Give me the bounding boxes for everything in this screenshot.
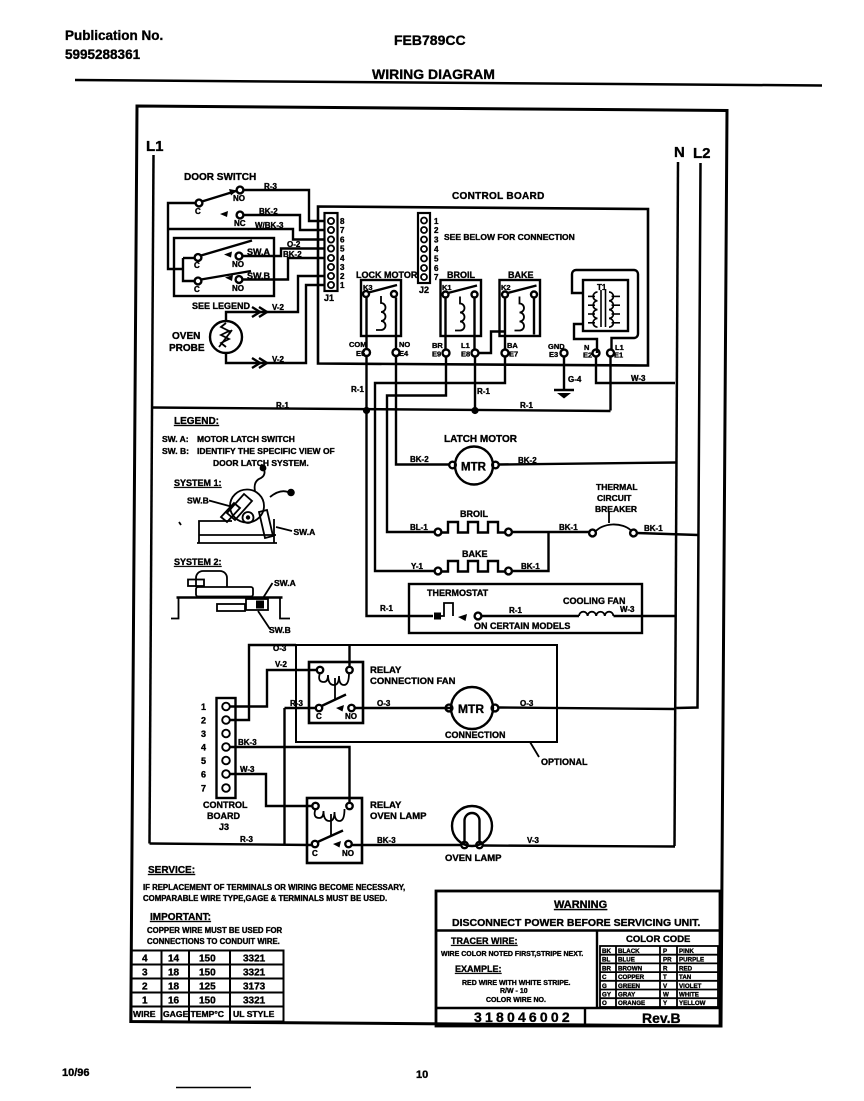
svg-text:318046002: 318046002: [474, 1009, 573, 1025]
svg-text:RED: RED: [679, 965, 693, 972]
wire W-3 J3 pin6 to lamp relay coil: [230, 774, 312, 806]
svg-text:LEGEND:: LEGEND:: [174, 416, 219, 427]
wire bake joins broil line: [512, 532, 549, 571]
svg-text:CONNECTION FAN: CONNECTION FAN: [370, 676, 456, 687]
svg-text:O-3: O-3: [273, 644, 287, 653]
svg-text:SYSTEM 2:: SYSTEM 2:: [174, 557, 222, 567]
wire V-2 oven probe top to J1 pin2: [226, 276, 324, 321]
svg-text:PROBE: PROBE: [169, 343, 205, 354]
svg-text:V-3: V-3: [527, 836, 540, 845]
svg-text:WARNING: WARNING: [554, 899, 607, 911]
wire R-3 drop: [283, 708, 285, 845]
svg-text:BK-1: BK-1: [559, 523, 578, 532]
wire O-2 SW.A NO to J1 pin5: [243, 249, 325, 257]
wire W-3 fan to N rail: [614, 615, 677, 617]
svg-text:DOOR SWITCH: DOOR SWITCH: [184, 172, 256, 183]
svg-text:C: C: [602, 974, 607, 981]
diagram frame: [131, 106, 727, 1026]
svg-text:E5: E5: [356, 349, 365, 358]
svg-text:R: R: [663, 965, 668, 972]
svg-text:BK-2: BK-2: [283, 250, 302, 259]
svg-text:COM: COM: [349, 340, 367, 349]
svg-text:1: 1: [434, 217, 439, 226]
svg-text:5995288361: 5995288361: [65, 47, 141, 62]
header rule: [75, 80, 822, 86]
svg-text:R-1: R-1: [380, 604, 393, 613]
svg-text:O-2: O-2: [287, 240, 301, 249]
svg-text:W: W: [663, 992, 669, 999]
svg-text:NO: NO: [232, 260, 244, 269]
svg-text:E3: E3: [549, 350, 558, 359]
thermostat cooling fan box: [409, 584, 642, 633]
svg-text:BK-1: BK-1: [644, 524, 663, 533]
svg-text:BLUE: BLUE: [618, 957, 635, 964]
svg-text:R-1: R-1: [509, 606, 522, 615]
svg-text:WHITE: WHITE: [679, 992, 699, 999]
wire door switch C common: [168, 203, 196, 269]
system 2 latch sketch: [171, 571, 290, 619]
svg-text:E2: E2: [583, 351, 592, 360]
switch SW.B contact C: [195, 278, 202, 285]
svg-text:LATCH MOTOR: LATCH MOTOR: [444, 434, 518, 445]
svg-text:18: 18: [168, 968, 180, 979]
svg-text:VIOLET: VIOLET: [679, 983, 702, 990]
svg-text:3321: 3321: [243, 996, 266, 1007]
svg-text:E4: E4: [399, 349, 409, 358]
svg-text:1: 1: [201, 702, 206, 712]
svg-text:7: 7: [201, 784, 206, 794]
svg-text:Publication No.: Publication No.: [65, 28, 163, 43]
svg-text:Y-1: Y-1: [411, 562, 424, 571]
svg-text:PINK: PINK: [679, 948, 694, 955]
connector chevrons bottom: [252, 358, 267, 368]
svg-text:THERMOSTAT: THERMOSTAT: [427, 588, 489, 598]
svg-text:C: C: [194, 261, 200, 270]
svg-text:OVEN: OVEN: [172, 331, 200, 342]
svg-text:6: 6: [340, 236, 345, 245]
connector J1: [325, 213, 338, 291]
svg-text:18: 18: [168, 982, 180, 993]
wire V-3 lamp to N rail: [483, 846, 676, 847]
svg-text:TRACER WIRE:: TRACER WIRE:: [451, 936, 518, 946]
wire BK-2 latch motor to N rail: [499, 463, 676, 465]
svg-text:RED WIRE WITH WHITE STRIPE.: RED WIRE WITH WHITE STRIPE.: [462, 980, 571, 987]
thermal circuit breaker: [595, 482, 638, 514]
svg-text:2: 2: [142, 982, 148, 993]
svg-text:W-3: W-3: [631, 374, 646, 383]
svg-text:MTR: MTR: [461, 462, 487, 474]
header publication no: [65, 28, 495, 82]
terminal E5: [363, 349, 370, 356]
wire E9 to broil column: [387, 357, 446, 533]
svg-text:THERMAL: THERMAL: [596, 482, 638, 492]
svg-text:SW.A: SW.A: [274, 578, 296, 588]
svg-text:R-1: R-1: [351, 385, 364, 394]
svg-text:YELLOW: YELLOW: [679, 1000, 706, 1007]
wire E8 to K2 common: [479, 332, 506, 354]
switch SW.A arm: [201, 241, 252, 256]
svg-text:BAKE: BAKE: [508, 270, 534, 280]
svg-text:125: 125: [199, 982, 216, 993]
svg-text:CONTROL: CONTROL: [203, 800, 248, 810]
wire BK-3 lamp relay NO to lamp: [352, 844, 461, 846]
svg-text:SW.A: SW.A: [294, 527, 316, 537]
wire K2 right contact: [533, 298, 535, 335]
svg-text:RELAY: RELAY: [370, 800, 402, 811]
svg-text:E1: E1: [614, 351, 623, 360]
optional leader: [530, 742, 539, 757]
relay oven lamp box: [307, 798, 362, 863]
svg-text:7: 7: [434, 273, 439, 282]
control board outline: [318, 207, 648, 366]
wire W-3 E2 to N rail: [596, 357, 675, 384]
wire R-3 to J1 pin8: [244, 190, 325, 221]
wire BK-2 SW.B NO to J1 pin4: [243, 258, 325, 280]
svg-text:NO: NO: [233, 194, 245, 203]
svg-text:BK-1: BK-1: [521, 562, 540, 571]
svg-text:FEB789CC: FEB789CC: [394, 32, 466, 48]
connection fan motor MTR: [451, 687, 493, 729]
svg-text:R-3: R-3: [240, 835, 253, 844]
svg-text:UL STYLE: UL STYLE: [233, 1009, 275, 1019]
wire W/BK-3 to J1 pin6: [168, 229, 324, 240]
svg-text:R-1: R-1: [520, 401, 533, 410]
wire BK-3 J3 pin4 to lamp relay coil: [230, 747, 350, 803]
cooling fan coil: [482, 615, 580, 617]
svg-text:SERVICE:: SERVICE:: [148, 865, 195, 876]
svg-text:7: 7: [340, 226, 345, 235]
wire R-3 main to lamp relay C: [150, 844, 313, 846]
fan relay coil: [317, 667, 323, 673]
svg-text:3: 3: [142, 968, 148, 979]
svg-text:EXAMPLE:: EXAMPLE:: [455, 964, 502, 974]
svg-text:L2: L2: [693, 145, 711, 162]
wire V-2 oven probe bottom to J1 pin1: [226, 285, 324, 363]
svg-text:150: 150: [199, 968, 216, 979]
svg-text:8: 8: [340, 217, 345, 226]
svg-text:6: 6: [434, 264, 439, 273]
svg-text:NO: NO: [232, 284, 244, 293]
svg-text:MOTOR LATCH SWITCH: MOTOR LATCH SWITCH: [197, 434, 295, 444]
svg-text:1: 1: [142, 996, 148, 1007]
wire N rail: [675, 162, 679, 846]
svg-text:R-1: R-1: [477, 387, 490, 396]
svg-text:O-3: O-3: [520, 699, 534, 708]
svg-text:2: 2: [434, 226, 439, 235]
wire R-1 main horizontal: [152, 408, 611, 412]
svg-text:NO: NO: [342, 849, 354, 858]
terminal E1 L1: [607, 350, 614, 357]
svg-text:BL: BL: [602, 957, 610, 964]
system 1 latch sketch: [179, 465, 295, 543]
wire E4 column down to latch motor: [396, 356, 450, 465]
relay connection fan box: [309, 662, 363, 723]
svg-text:BR: BR: [602, 965, 611, 972]
svg-text:150: 150: [199, 996, 216, 1007]
svg-text:E9: E9: [432, 350, 441, 359]
svg-text:PR: PR: [663, 957, 672, 964]
transformer T1 inner box: [583, 280, 628, 331]
svg-text:BK: BK: [602, 948, 611, 955]
svg-text:NO: NO: [345, 712, 357, 721]
svg-text:14: 14: [168, 954, 180, 965]
svg-text:BK-2: BK-2: [410, 455, 429, 464]
svg-text:WIRING DIAGRAM: WIRING DIAGRAM: [372, 66, 495, 82]
transformer T1 outer: [572, 270, 638, 350]
svg-text:W/BK-3: W/BK-3: [255, 221, 284, 230]
svg-text:C: C: [316, 712, 322, 721]
svg-text:OVEN LAMP: OVEN LAMP: [370, 811, 427, 822]
svg-text:BOARD: BOARD: [207, 811, 240, 821]
wire O-3 coil to top: [348, 645, 350, 667]
door switch contact C: [196, 200, 203, 207]
switch SW.B contact NO: [236, 276, 243, 283]
svg-text:150: 150: [199, 954, 216, 965]
footer tick: [176, 1087, 251, 1089]
svg-text:C: C: [195, 207, 201, 216]
svg-text:4: 4: [201, 743, 206, 753]
lamp relay contacts: [312, 841, 318, 847]
svg-text:10/96: 10/96: [62, 1067, 90, 1079]
svg-text:OVEN LAMP: OVEN LAMP: [445, 853, 502, 864]
wire O-3 J3 pin2 to optional box: [230, 645, 296, 720]
wire L2 rail: [677, 163, 701, 708]
latch switch box: [174, 238, 274, 296]
svg-text:PURPLE: PURPLE: [679, 957, 704, 964]
svg-text:TAN: TAN: [679, 974, 692, 981]
wire R-3 to fan relay C: [285, 707, 317, 709]
svg-text:NC: NC: [234, 219, 246, 228]
svg-text:5: 5: [201, 756, 206, 766]
svg-text:SYSTEM 1:: SYSTEM 1:: [174, 478, 222, 488]
svg-text:BL-1: BL-1: [410, 523, 428, 532]
svg-text:4: 4: [434, 245, 439, 254]
svg-text:CIRCUIT: CIRCUIT: [597, 493, 632, 503]
svg-text:ON CERTAIN MODELS: ON CERTAIN MODELS: [474, 621, 570, 631]
wire common bus inside box: [183, 258, 195, 281]
svg-text:COPPER: COPPER: [618, 974, 645, 981]
door switch contact NC: [220, 211, 228, 217]
svg-text:IF REPLACEMENT OF TERMINALS OR: IF REPLACEMENT OF TERMINALS OR WIRING BE…: [143, 883, 405, 892]
part number row: [436, 1007, 720, 1009]
svg-text:COPPER WIRE MUST BE USED FOR: COPPER WIRE MUST BE USED FOR: [147, 926, 283, 935]
connector chevrons top: [252, 307, 267, 317]
connector J2: [418, 213, 430, 283]
svg-text:R/W - 10: R/W - 10: [500, 988, 528, 995]
wire O-3 motor to N rail: [499, 708, 676, 710]
wire E5 column down to thermostat: [367, 356, 434, 616]
svg-text:R-3: R-3: [264, 182, 277, 191]
svg-text:GY: GY: [602, 992, 612, 999]
svg-text:MTR: MTR: [458, 702, 484, 716]
svg-text:J2: J2: [419, 285, 429, 295]
svg-text:V-2: V-2: [272, 355, 285, 364]
wire E1 down to R-1 line: [609, 357, 611, 411]
svg-text:BAKE: BAKE: [462, 549, 488, 559]
wire BK-2 to J1 pin7: [244, 215, 325, 230]
lamp relay coil: [312, 803, 318, 809]
svg-text:LOCK MOTOR: LOCK MOTOR: [356, 270, 418, 280]
svg-text:SW.B: SW.B: [187, 496, 209, 506]
tracer wire cell: [596, 931, 598, 1009]
wire O-3 fan relay NO to motor: [355, 707, 451, 709]
svg-text:3321: 3321: [243, 954, 266, 965]
wire breaker to L2 rail: [637, 533, 699, 535]
svg-text:OPTIONAL: OPTIONAL: [541, 757, 588, 767]
terminal E4: [393, 349, 400, 356]
svg-text:SW. A:: SW. A:: [162, 434, 189, 444]
svg-text:6: 6: [201, 770, 206, 780]
svg-text:W-3: W-3: [620, 605, 635, 614]
wire E7 to bake column: [375, 357, 505, 572]
svg-text:16: 16: [168, 996, 180, 1007]
svg-text:W-3: W-3: [240, 765, 255, 774]
svg-text:10: 10: [416, 1069, 428, 1081]
oven probe: [210, 321, 242, 353]
junction E8 column on R-1: [471, 407, 478, 414]
svg-text:V-2: V-2: [275, 660, 288, 669]
svg-text:BLACK: BLACK: [618, 948, 640, 955]
svg-text:V-2: V-2: [272, 303, 285, 312]
svg-text:Rev.B: Rev.B: [642, 1010, 681, 1026]
wire broil to breaker: [512, 531, 589, 533]
svg-text:BROIL: BROIL: [447, 270, 476, 280]
wire L1 rail: [150, 155, 154, 844]
door switch contact NO: [237, 187, 244, 194]
svg-text:3: 3: [434, 236, 439, 245]
svg-text:COLOR WIRE NO.: COLOR WIRE NO.: [486, 997, 546, 1004]
svg-text:CONNECTIONS TO CONDUIT WIRE.: CONNECTIONS TO CONDUIT WIRE.: [147, 937, 280, 946]
svg-text:3321: 3321: [243, 968, 266, 979]
legend text: [162, 434, 335, 468]
svg-text:SW. B:: SW. B:: [162, 446, 189, 456]
svg-text:E7: E7: [509, 350, 518, 359]
svg-text:G: G: [602, 983, 607, 990]
svg-text:ORANGE: ORANGE: [618, 1000, 645, 1007]
svg-text:DISCONNECT POWER BEFORE SERVIC: DISCONNECT POWER BEFORE SERVICING UNIT.: [452, 917, 700, 929]
svg-text:IDENTIFY THE SPECIFIC VIEW OF: IDENTIFY THE SPECIFIC VIEW OF: [197, 446, 335, 456]
transformer T1 windings: [600, 290, 602, 327]
svg-text:SEE BELOW FOR CONNECTION: SEE BELOW FOR CONNECTION: [444, 232, 575, 242]
terminal E8: [472, 350, 479, 357]
svg-text:COMPARABLE WIRE TYPE,GAGE & TE: COMPARABLE WIRE TYPE,GAGE & TERMINALS MU…: [143, 894, 387, 903]
svg-text:R-1: R-1: [276, 401, 289, 410]
svg-text:IMPORTANT:: IMPORTANT:: [150, 912, 211, 923]
svg-text:COLOR CODE: COLOR CODE: [626, 934, 690, 945]
svg-text:TEMP°C: TEMP°C: [191, 1009, 225, 1019]
connector J3: [217, 698, 236, 798]
svg-text:SW.B: SW.B: [269, 625, 291, 635]
terminal E2 N: [593, 350, 600, 357]
svg-text:BK-3: BK-3: [377, 836, 396, 845]
svg-text:GREEN: GREEN: [618, 983, 641, 990]
svg-text:E8: E8: [461, 350, 470, 359]
svg-text:O-3: O-3: [377, 699, 391, 708]
svg-text:BK-2: BK-2: [518, 456, 537, 465]
svg-text:BROIL: BROIL: [460, 509, 489, 519]
svg-text:CONTROL BOARD: CONTROL BOARD: [452, 191, 545, 202]
svg-text:GAGE: GAGE: [163, 1009, 189, 1019]
door switch arm: [202, 191, 236, 202]
svg-text:J3: J3: [219, 822, 229, 832]
svg-text:BK-2: BK-2: [259, 207, 278, 216]
junction E5 column on R-1: [363, 407, 370, 414]
switch SW.B arm: [201, 271, 251, 280]
svg-text:BREAKER: BREAKER: [595, 504, 637, 514]
svg-text:COOLING FAN: COOLING FAN: [563, 596, 626, 606]
svg-text:4: 4: [340, 254, 345, 263]
svg-text:N: N: [674, 144, 685, 161]
svg-text:CONNECTION: CONNECTION: [445, 730, 506, 740]
wire V-2 J3 pin1 to fan relay coil: [230, 670, 316, 707]
oven lamp: [452, 806, 492, 846]
svg-text:WIRE: WIRE: [133, 1009, 156, 1019]
svg-text:BROWN: BROWN: [618, 965, 643, 972]
svg-text:C: C: [194, 285, 200, 294]
svg-text:2: 2: [340, 272, 345, 281]
svg-text:T: T: [663, 974, 667, 981]
thermostat contact: [434, 613, 441, 620]
svg-text:R-3: R-3: [290, 699, 303, 708]
terminal E7: [502, 350, 509, 357]
wire gage table: [132, 951, 284, 1022]
svg-text:4: 4: [142, 954, 148, 965]
svg-text:5: 5: [434, 255, 439, 264]
svg-text:3173: 3173: [243, 982, 266, 993]
svg-text:C: C: [312, 849, 318, 858]
svg-text:P: P: [663, 948, 667, 955]
svg-text:J1: J1: [324, 293, 334, 303]
terminal E9: [443, 350, 450, 357]
fan relay contacts: [316, 705, 322, 711]
warning box: [436, 891, 720, 1026]
svg-text:2: 2: [201, 716, 206, 726]
svg-text:1: 1: [340, 281, 345, 290]
svg-text:5: 5: [340, 245, 345, 254]
switch SW.A contact C: [195, 254, 202, 261]
svg-text:BK-3: BK-3: [238, 738, 257, 747]
ground G-4: [563, 357, 565, 391]
svg-text:3: 3: [201, 729, 206, 739]
svg-text:RELAY: RELAY: [370, 665, 402, 676]
svg-text:L1: L1: [146, 138, 164, 155]
terminal E3 GND: [561, 350, 568, 357]
svg-text:WIRE COLOR NOTED FIRST,STRIPE: WIRE COLOR NOTED FIRST,STRIPE NEXT.: [441, 951, 583, 958]
optional box: [296, 645, 557, 742]
svg-text:3: 3: [340, 263, 345, 272]
svg-text:GRAY: GRAY: [618, 992, 636, 999]
switch SW.A contact NO: [224, 252, 232, 258]
wire E8 column down: [474, 357, 476, 408]
svg-text:O: O: [602, 1000, 607, 1007]
svg-text:NO: NO: [399, 340, 410, 349]
svg-text:G-4: G-4: [568, 375, 582, 384]
svg-text:SEE LEGEND: SEE LEGEND: [192, 301, 251, 311]
